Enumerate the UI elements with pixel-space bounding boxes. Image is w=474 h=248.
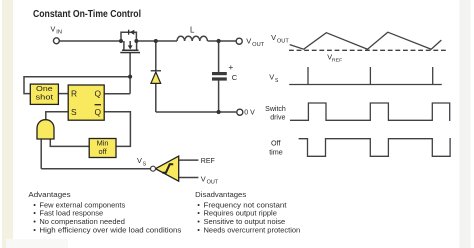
- svg-text:Disadvantages: Disadvantages: [195, 190, 246, 199]
- svg-text:Needs overcurrent protection: Needs overcurrent protection: [204, 225, 301, 234]
- svg-text:C: C: [232, 73, 238, 82]
- svg-text:•: •: [197, 225, 200, 234]
- svg-text:V: V: [271, 33, 276, 42]
- svg-text:shot: shot: [36, 92, 54, 101]
- svg-text:off: off: [99, 147, 108, 156]
- svg-text:REF: REF: [332, 58, 343, 63]
- svg-text:Q: Q: [95, 89, 102, 99]
- svg-text:Off: Off: [271, 138, 280, 147]
- svg-text:S: S: [71, 107, 77, 117]
- svg-text:Q: Q: [95, 107, 102, 117]
- svg-text:High efficiency over wide load: High efficiency over wide load condition…: [39, 225, 181, 234]
- svg-text:V: V: [246, 37, 251, 46]
- svg-text:Advantages: Advantages: [28, 190, 70, 199]
- svg-text:OUT: OUT: [252, 42, 264, 48]
- svg-text:IN: IN: [56, 30, 62, 36]
- svg-text:time: time: [269, 148, 283, 157]
- svg-text:V: V: [137, 156, 142, 165]
- svg-text:L: L: [190, 25, 195, 34]
- svg-text:0 V: 0 V: [244, 110, 255, 117]
- svg-text:Constant On-Time Control: Constant On-Time Control: [33, 9, 141, 20]
- svg-text:drive: drive: [270, 115, 285, 122]
- svg-text:Switch: Switch: [265, 106, 286, 113]
- svg-text:V: V: [51, 24, 56, 33]
- svg-text:REF: REF: [201, 158, 215, 165]
- svg-text:R: R: [71, 89, 77, 99]
- svg-text:V: V: [201, 174, 206, 183]
- svg-text:•: •: [33, 225, 36, 234]
- svg-text:V: V: [269, 73, 274, 82]
- svg-text:+: +: [228, 62, 233, 72]
- svg-text:OUT: OUT: [207, 180, 219, 186]
- svg-text:OUT: OUT: [277, 38, 289, 44]
